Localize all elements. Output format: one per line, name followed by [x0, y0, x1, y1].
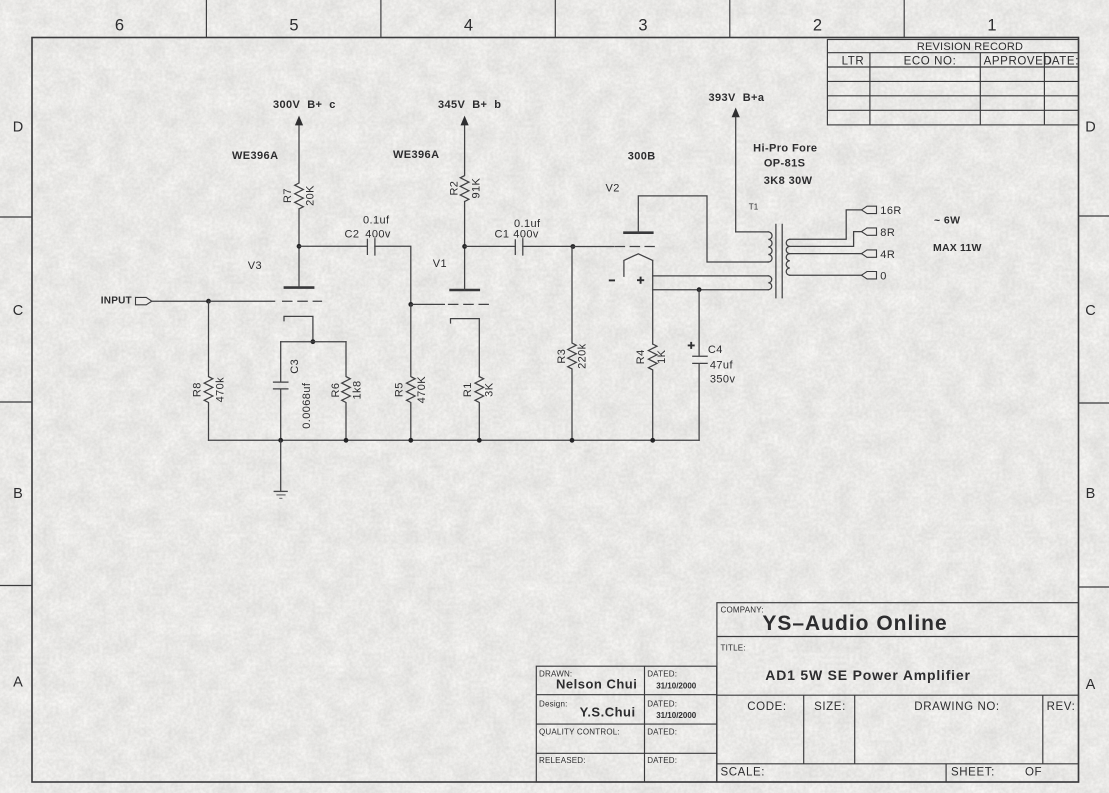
revision record table	[827, 40, 1079, 125]
capacitor C2 0.1uf 400v	[345, 215, 391, 256]
svg-text:8R: 8R	[880, 227, 895, 239]
node R7/C2 junction	[297, 244, 302, 249]
node input/R8 junction	[206, 299, 211, 304]
approval table	[536, 666, 716, 782]
svg-text:OF: OF	[1025, 767, 1042, 779]
transformer T1 core	[776, 224, 782, 297]
svg-text:16R: 16R	[880, 205, 901, 217]
svg-text:V2: V2	[606, 182, 620, 194]
svg-text:4: 4	[464, 17, 473, 35]
node rail junctions	[278, 438, 655, 443]
svg-text:A: A	[13, 675, 23, 691]
output port 16R	[862, 205, 902, 217]
svg-text:3: 3	[638, 17, 647, 35]
svg-text:WE396A: WE396A	[232, 150, 278, 162]
svg-text:0.0068uf: 0.0068uf	[301, 382, 313, 429]
transformer T1 secondary	[786, 210, 861, 275]
svg-text:6: 6	[115, 17, 124, 35]
svg-text:C: C	[13, 303, 23, 319]
svg-text:C3: C3	[289, 359, 301, 374]
svg-text:DATED:: DATED:	[647, 756, 677, 765]
svg-text:4R: 4R	[880, 249, 895, 261]
TABLES	[536, 40, 1079, 783]
wire cathode winding return	[653, 289, 769, 291]
svg-text:TITLE:: TITLE:	[721, 644, 746, 653]
svg-text:3K: 3K	[484, 382, 496, 397]
svg-text:470k: 470k	[214, 377, 226, 403]
capacitor C3 0.0068uf	[274, 342, 314, 441]
output port 0	[862, 271, 887, 283]
power arrow 345V B+ b	[438, 99, 501, 125]
svg-text:T1: T1	[749, 202, 759, 211]
wire cathode rail	[281, 341, 346, 343]
svg-text:220k: 220k	[577, 343, 589, 369]
svg-text:OP-81S: OP-81S	[764, 157, 806, 169]
svg-text:A: A	[1086, 677, 1096, 693]
svg-text:B: B	[13, 486, 23, 502]
node R3/V2 grid junction	[571, 244, 576, 249]
node V3 cathode junction	[311, 339, 316, 344]
svg-text:R7: R7	[282, 188, 294, 203]
ground	[274, 440, 288, 498]
triode V2 300B	[606, 151, 769, 344]
svg-text:R3: R3	[556, 349, 568, 364]
svg-text:~ 6W: ~ 6W	[934, 214, 960, 226]
svg-text:DATED:: DATED:	[647, 670, 677, 679]
svg-text:V3: V3	[248, 260, 262, 272]
capacitor C4 47uf 350v	[688, 290, 736, 441]
resistor R5 470K	[394, 304, 429, 440]
svg-text:31/10/2000: 31/10/2000	[656, 711, 697, 720]
svg-text:WE396A: WE396A	[393, 149, 439, 161]
svg-text:345V B+ b: 345V B+ b	[438, 99, 501, 111]
wire filament plus to T1	[653, 275, 769, 277]
svg-text:5: 5	[289, 17, 298, 35]
svg-text:SHEET:: SHEET:	[951, 767, 995, 779]
svg-text:CODE:: CODE:	[747, 701, 786, 713]
output port 4R	[862, 249, 896, 261]
svg-text:SIZE:: SIZE:	[814, 701, 846, 713]
wire node to V3 grid	[209, 300, 275, 302]
svg-text:DATED:: DATED:	[647, 727, 677, 736]
output port 8R	[862, 227, 896, 239]
svg-text:350v: 350v	[710, 373, 736, 385]
svg-text:R8: R8	[192, 382, 204, 397]
svg-text:R6: R6	[330, 383, 342, 398]
svg-text:2: 2	[813, 17, 822, 35]
svg-text:31/10/2000: 31/10/2000	[656, 681, 697, 690]
node R2/C1 junction	[462, 244, 467, 249]
title block	[717, 603, 1079, 782]
svg-text:R5: R5	[394, 382, 406, 397]
triode V3 WE396A	[232, 150, 321, 342]
svg-text:V1: V1	[433, 258, 447, 270]
svg-text:400v: 400v	[513, 229, 539, 241]
power arrow 300V B+ c	[273, 99, 336, 125]
wire C1 to V2 grid node	[523, 245, 573, 247]
svg-text:RELEASED:: RELEASED:	[539, 756, 586, 765]
svg-text:1K: 1K	[656, 349, 668, 364]
svg-text:D: D	[13, 120, 23, 136]
svg-text:R2: R2	[449, 181, 461, 196]
svg-text:AD1 5W SE Power Amplifier: AD1 5W SE Power Amplifier	[765, 667, 970, 683]
wire R7 node to C2	[299, 245, 367, 247]
resistor R1 3K	[462, 377, 495, 441]
wire input to grid node	[152, 300, 209, 302]
svg-text:DATED:: DATED:	[647, 700, 677, 709]
triode V1 WE396A	[393, 149, 488, 377]
svg-text:C2: C2	[345, 229, 360, 241]
svg-text:1: 1	[987, 17, 996, 35]
node C4 junction	[697, 287, 702, 292]
svg-text:C: C	[1085, 303, 1095, 319]
node V1 grid junction	[408, 302, 413, 307]
svg-text:1k8: 1k8	[352, 381, 364, 400]
svg-text:300V B+ c: 300V B+ c	[273, 99, 336, 111]
svg-text:D: D	[1085, 120, 1095, 136]
svg-text:LTR: LTR	[842, 55, 865, 67]
svg-text:91K: 91K	[471, 177, 483, 198]
svg-text:Y.S.Chui: Y.S.Chui	[580, 704, 636, 719]
svg-text:470K: 470K	[416, 376, 428, 404]
wire grid node to V2 grid	[573, 246, 654, 248]
svg-text:COMPANY:: COMPANY:	[721, 606, 764, 615]
svg-text:20K: 20K	[304, 185, 316, 206]
transformer T1 primary	[736, 202, 772, 289]
resistor R3 220k	[556, 247, 589, 441]
svg-text:B: B	[1086, 486, 1096, 502]
resistor R7 20K	[282, 125, 317, 246]
transformer T1 labels	[753, 143, 817, 188]
svg-text:0: 0	[880, 271, 887, 283]
svg-text:ECO NO:: ECO NO:	[904, 55, 957, 67]
svg-text:INPUT: INPUT	[101, 295, 132, 306]
svg-text:0.1uf: 0.1uf	[514, 218, 541, 230]
resistor R2 91K	[449, 125, 483, 246]
power arrow 393V B+a	[709, 92, 765, 232]
resistor R8 470k	[192, 301, 227, 440]
svg-text:Nelson Chui: Nelson Chui	[556, 676, 637, 691]
input port INPUT	[101, 295, 152, 306]
svg-text:C4: C4	[708, 344, 723, 356]
svg-text:3K8 30W: 3K8 30W	[764, 175, 813, 187]
note power rating	[933, 214, 982, 254]
svg-text:400v: 400v	[365, 229, 391, 241]
svg-text:MAX 11W: MAX 11W	[933, 242, 982, 254]
svg-text:393V B+a: 393V B+a	[709, 92, 765, 104]
svg-text:C1: C1	[495, 229, 510, 241]
svg-text:SCALE:: SCALE:	[721, 767, 766, 779]
svg-text:Hi-Pro Fore: Hi-Pro Fore	[753, 143, 817, 155]
wire C2 to V1 grid	[375, 246, 411, 304]
capacitor C1 0.1uf 400v	[495, 218, 542, 255]
svg-text:QUALITY CONTROL:: QUALITY CONTROL:	[539, 727, 620, 736]
svg-text:Design:: Design:	[539, 700, 568, 709]
wire ground rail	[209, 439, 700, 441]
svg-text:REVISION RECORD: REVISION RECORD	[917, 41, 1023, 53]
svg-text:YS–Audio Online: YS–Audio Online	[762, 612, 947, 635]
wire R2 node to C1	[465, 245, 516, 247]
svg-text:300B: 300B	[628, 151, 656, 163]
svg-text:REV:: REV:	[1047, 701, 1076, 713]
svg-text:DATE:: DATE:	[1043, 55, 1079, 67]
svg-text:0.1uf: 0.1uf	[363, 215, 390, 227]
svg-text:R4: R4	[635, 349, 647, 364]
svg-text:R1: R1	[462, 382, 474, 397]
svg-text:47uf: 47uf	[710, 360, 734, 372]
resistor R6 1k8	[330, 342, 364, 441]
svg-text:DRAWING NO:: DRAWING NO:	[914, 701, 999, 713]
resistor R4 1K	[635, 344, 668, 440]
